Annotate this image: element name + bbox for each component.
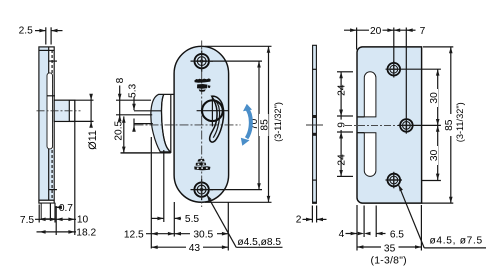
svg-text:(1-3/8"): (1-3/8"): [371, 256, 407, 267]
svg-text:4: 4: [339, 229, 345, 240]
hook mouth line upper: [134, 110, 161, 112]
svg-text:20: 20: [370, 26, 382, 37]
dimension 24 lower: [340, 132, 342, 176]
svg-text:5.3: 5.3: [128, 83, 139, 97]
J-hook inner: [213, 99, 219, 137]
svg-text:43: 43: [189, 243, 201, 254]
svg-text:12.5: 12.5: [124, 230, 144, 241]
horizontal centerline: [135, 124, 241, 126]
plate lower blue area: [48, 149, 53, 200]
internal step line: [47, 95, 55, 97]
LAMP logo stamp: [194, 78, 210, 91]
dimension 5.5: [151, 217, 164, 219]
strike side bar: [313, 45, 317, 203]
svg-text:0.7: 0.7: [59, 203, 73, 214]
ON mark stamp: [194, 159, 210, 171]
oval plate body: [174, 46, 229, 202]
svg-text:8: 8: [115, 77, 126, 83]
svg-text:30: 30: [429, 92, 440, 104]
rotation blue arrow: [246, 108, 250, 138]
svg-text:24: 24: [337, 84, 348, 96]
svg-text:2.5: 2.5: [19, 26, 33, 37]
dimension 85 (middle): [205, 45, 272, 47]
dimension 30 / 30 extension lines: [402, 68, 441, 70]
svg-text:9: 9: [336, 122, 347, 128]
dimension 2: [311, 206, 313, 223]
screw hole tick top: [49, 60, 57, 62]
svg-text:ø4.5,ø8.5: ø4.5,ø8.5: [237, 237, 281, 248]
middle hole: [400, 119, 413, 132]
dimension 12.5 / 30.5: [146, 233, 228, 235]
dimension 85 (right): [423, 46, 453, 48]
svg-text:30.5: 30.5: [193, 229, 213, 240]
svg-text:2: 2: [296, 214, 302, 225]
cylinder centerline: [37, 110, 81, 112]
svg-text:24: 24: [337, 154, 348, 166]
svg-text:18.2: 18.2: [76, 228, 96, 239]
dimension 4 / 6.5 extension lines: [356, 205, 358, 251]
svg-text:6.5: 6.5: [390, 229, 404, 240]
svg-text:(3-11/32"): (3-11/32"): [273, 102, 283, 142]
hook mouth line lower: [134, 123, 153, 125]
plate hidden dashed line: [51, 50, 53, 200]
plate inner vertical line: [48, 47, 50, 200]
8 extension lines: [116, 99, 151, 101]
J-hook outer: [210, 96, 224, 142]
protruding hook blade (front view): [151, 94, 174, 151]
side bar bottom cap: [312, 201, 316, 203]
cam crosshair horizontal: [197, 110, 229, 112]
strike plate body: [357, 47, 422, 203]
leader ø4.5,ø7.5: [399, 185, 425, 248]
dimension 12.5 / 30.5 extension lines: [150, 137, 152, 249]
hook housing slot line: [170, 94, 172, 152]
tab edge lines: [357, 116, 364, 118]
dimension 35: [357, 246, 421, 248]
bottom screw hole: [388, 174, 401, 187]
latch cylinder (side): [54, 100, 75, 121]
dimension 0.7 leader: [56, 206, 61, 208]
svg-text:Ø11: Ø11: [87, 130, 99, 150]
leader ø4.5,ø8.5: [207, 195, 236, 248]
vertical centerline: [201, 41, 203, 208]
bottom hole crosshair: [191, 189, 214, 191]
screw hole tick bottom: [49, 189, 57, 191]
inner slot: [47, 73, 53, 149]
svg-text:(3-11/32"): (3-11/32"): [455, 102, 465, 142]
top screw hole: [195, 54, 209, 68]
side bar centerline: [306, 124, 323, 126]
dimension 20 / 7: [356, 28, 358, 50]
dimension 30 lower: [437, 125, 439, 180]
svg-text:ø4.5, ø7.5: ø4.5, ø7.5: [429, 236, 482, 247]
svg-text:10: 10: [77, 215, 89, 226]
svg-text:35: 35: [384, 244, 396, 255]
housing bottom edge: [121, 152, 171, 154]
middle hole dash centerline left: [345, 124, 398, 126]
side bar tab marks: [313, 115, 317, 118]
dimension 24 / 9 / 24 extension lines: [337, 71, 353, 73]
cam crosshair vertical: [211, 96, 213, 126]
dimension 24 upper: [340, 72, 342, 116]
dimension ø11 line: [75, 99, 94, 101]
svg-text:7.5: 7.5: [20, 215, 34, 226]
bottom screw hole: [194, 182, 208, 196]
ON mark white letter gaps: [197, 160, 208, 169]
dimension 43: [151, 246, 228, 248]
svg-text:85: 85: [259, 119, 270, 131]
plate blue strip: [40, 48, 49, 201]
upper slot: [364, 72, 376, 117]
dimension 4 / 6.5: [346, 233, 358, 235]
top hole crosshair: [191, 60, 214, 62]
svg-text:85: 85: [444, 119, 455, 131]
blade tip below plate: [41, 203, 55, 219]
dimension 18.2 line: [37, 231, 77, 233]
hook blade inner edge: [162, 94, 171, 151]
svg-text:30: 30: [429, 149, 440, 161]
dimension 70: [210, 60, 262, 62]
blade tip inner line: [49, 203, 51, 219]
svg-text:7: 7: [420, 26, 426, 37]
dimension 2.5 extension lines: [45, 27, 47, 44]
lower slot: [364, 133, 376, 177]
dimension 2.5 line and arrows: [35, 30, 46, 32]
plate body: [39, 47, 54, 203]
plate top cap line: [39, 49, 54, 51]
side bar hole ticks: [312, 68, 316, 70]
svg-text:5.5: 5.5: [185, 214, 199, 225]
dimension 7.5 / 10 line: [38, 205, 40, 223]
svg-text:20.5: 20.5: [113, 120, 124, 140]
top screw hole: [388, 63, 401, 76]
dimension 30 upper: [437, 69, 439, 125]
dimension 9: [340, 116, 342, 120]
cam circle: [202, 100, 223, 121]
